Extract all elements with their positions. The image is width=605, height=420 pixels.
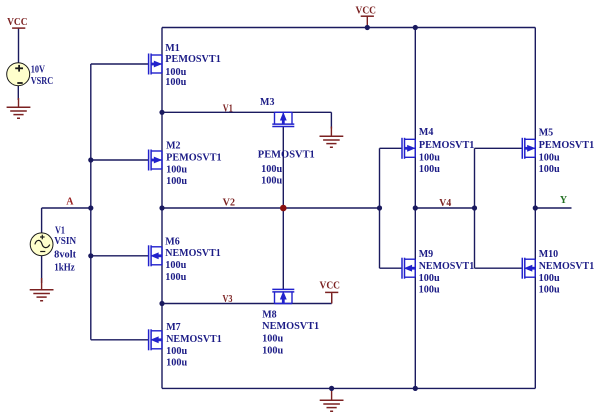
transistor M3 xyxy=(272,112,294,126)
svg-text:NEMOSVT1: NEMOSVT1 xyxy=(262,321,319,332)
svg-text:VSRC: VSRC xyxy=(31,76,54,87)
wire left column drain-source bus xyxy=(161,28,163,389)
power symbol VCC xyxy=(320,280,341,303)
transistor M10 xyxy=(522,258,535,279)
svg-text:100u: 100u xyxy=(419,284,440,295)
transistor M6 xyxy=(149,245,162,266)
svg-text:VCC: VCC xyxy=(7,17,28,28)
junction xyxy=(88,205,93,210)
wire VSIN bottom lead xyxy=(41,256,43,284)
label M1 value block xyxy=(165,43,221,88)
svg-text:100u: 100u xyxy=(165,77,186,88)
wire VSRC top lead xyxy=(18,28,20,63)
wire right column drain-source bus xyxy=(534,28,536,389)
svg-text:PEMOSVT1: PEMOSVT1 xyxy=(166,152,222,163)
power symbol VCC xyxy=(7,17,28,28)
wire V1 to ground drop xyxy=(330,112,332,128)
wire VSRC bottom lead xyxy=(17,86,19,100)
label V1 VSIN 8volt 1kHz xyxy=(54,225,77,273)
ground xyxy=(30,278,54,301)
wire M1 gate lead xyxy=(91,63,149,65)
svg-text:V2: V2 xyxy=(223,197,235,208)
svg-text:100u: 100u xyxy=(165,272,186,283)
ground xyxy=(320,127,344,148)
ground xyxy=(320,388,344,411)
wire M2 gate lead xyxy=(91,159,149,161)
svg-text:100u: 100u xyxy=(262,334,283,345)
svg-text:PEMOSVT1: PEMOSVT1 xyxy=(419,140,475,151)
svg-text:A: A xyxy=(66,196,74,207)
svg-text:100u: 100u xyxy=(261,164,282,175)
junction xyxy=(159,301,164,306)
wire left gate bus xyxy=(90,64,92,340)
power symbol VCC xyxy=(356,6,377,28)
junction xyxy=(159,110,164,115)
svg-text:M6: M6 xyxy=(165,236,179,247)
svg-text:VCC: VCC xyxy=(320,280,341,291)
svg-text:1kHz: 1kHz xyxy=(54,262,75,273)
svg-text:PEMOSVT1: PEMOSVT1 xyxy=(539,140,595,151)
svg-text:NEMOSVT1: NEMOSVT1 xyxy=(539,261,595,272)
svg-text:M3: M3 xyxy=(260,97,274,108)
junction xyxy=(377,205,382,210)
svg-text:PEMOSVT1: PEMOSVT1 xyxy=(258,150,315,161)
wire node A horizontal xyxy=(42,207,91,209)
svg-text:PEMOSVT1: PEMOSVT1 xyxy=(165,54,221,65)
svg-text:100u: 100u xyxy=(419,273,440,284)
transistor M9 xyxy=(402,258,415,279)
label VSRC 10V xyxy=(31,65,54,87)
svg-text:M8: M8 xyxy=(262,309,276,320)
svg-text:VCC: VCC xyxy=(356,6,377,17)
transistor M5 xyxy=(522,138,535,159)
wire M10 gate lead xyxy=(475,267,523,269)
voltage source V-VSRC 10V xyxy=(7,63,30,86)
wire node V4 horizontal xyxy=(415,207,474,209)
svg-text:M2: M2 xyxy=(166,140,180,151)
svg-text:M5: M5 xyxy=(539,127,553,138)
junction xyxy=(533,205,538,210)
wire M9 gate lead xyxy=(380,267,403,269)
transistor M4 xyxy=(402,138,415,159)
label M2 value block xyxy=(166,140,222,187)
svg-text:M7: M7 xyxy=(166,322,180,333)
wire M5 gate lead xyxy=(475,147,523,149)
svg-text:NEMOSVT1: NEMOSVT1 xyxy=(166,334,222,345)
junction xyxy=(88,253,93,258)
label M5 value block xyxy=(539,127,595,175)
label M7 value block xyxy=(166,322,222,369)
svg-text:100u: 100u xyxy=(539,153,560,164)
label M6 value block xyxy=(165,236,221,283)
wire M4 gate lead xyxy=(380,147,403,149)
wire M7 gate lead xyxy=(91,339,149,341)
wire node V3 horizontal xyxy=(162,303,332,305)
label M9 value block xyxy=(419,249,475,295)
svg-text:100u: 100u xyxy=(262,345,283,356)
wire M4-M9 gate vertical xyxy=(379,148,381,268)
junction xyxy=(472,205,477,210)
transistor M1 xyxy=(149,54,162,75)
svg-text:8volt: 8volt xyxy=(54,249,77,260)
svg-text:Y: Y xyxy=(560,195,568,206)
junction xyxy=(329,386,334,391)
svg-text:10V: 10V xyxy=(31,65,46,76)
wire V3 VCC riser xyxy=(331,294,333,304)
label M8 value block xyxy=(262,309,319,356)
junction xyxy=(365,25,370,30)
svg-text:M10: M10 xyxy=(539,249,558,260)
transistor M7 xyxy=(149,329,162,350)
svg-text:NEMOSVT1: NEMOSVT1 xyxy=(165,248,221,259)
wire M6 gate lead xyxy=(91,255,149,257)
ground xyxy=(7,98,31,118)
junction xyxy=(413,25,418,30)
wire M5-M10 gate vertical xyxy=(474,148,476,268)
wire VCC top rail xyxy=(162,27,535,29)
svg-text:100u: 100u xyxy=(165,260,186,271)
svg-text:V1: V1 xyxy=(223,103,233,114)
svg-text:100u: 100u xyxy=(166,176,187,187)
junction xyxy=(159,205,164,210)
svg-text:V1: V1 xyxy=(55,225,65,236)
svg-text:M1: M1 xyxy=(165,43,179,54)
svg-text:100u: 100u xyxy=(166,357,187,368)
wire node V2 horizontal xyxy=(162,207,380,209)
svg-text:100u: 100u xyxy=(419,152,440,163)
svg-text:M9: M9 xyxy=(419,249,433,260)
junction xyxy=(88,157,93,162)
label M4 value block xyxy=(419,127,475,175)
junction xyxy=(413,386,418,391)
transistor M2 xyxy=(149,150,162,171)
node V2 red junction dot xyxy=(280,205,287,212)
wire node V1 horizontal xyxy=(162,111,331,113)
junction xyxy=(413,205,418,210)
svg-text:100u: 100u xyxy=(539,284,560,295)
svg-text:100u: 100u xyxy=(419,164,440,175)
wire bottom ground rail xyxy=(162,387,535,389)
wire M3-M8 gate vertical xyxy=(282,127,284,289)
transistor M8 xyxy=(272,289,294,303)
svg-text:100u: 100u xyxy=(166,164,187,175)
svg-text:VSIN: VSIN xyxy=(54,236,77,247)
svg-text:100u: 100u xyxy=(539,273,560,284)
svg-text:V4: V4 xyxy=(439,198,451,209)
wire VSIN top lead xyxy=(41,208,43,233)
svg-text:M4: M4 xyxy=(419,127,433,138)
svg-text:100u: 100u xyxy=(539,164,560,175)
label M10 value block xyxy=(539,249,595,295)
wire middle column drain-source bus xyxy=(414,28,416,389)
svg-text:V3: V3 xyxy=(223,294,233,305)
voltage source V1 VSIN xyxy=(30,233,53,256)
wire output Y stub xyxy=(535,207,571,209)
label M3 value block xyxy=(258,97,315,187)
svg-text:NEMOSVT1: NEMOSVT1 xyxy=(419,261,475,272)
svg-text:100u: 100u xyxy=(261,176,282,187)
svg-text:100u: 100u xyxy=(166,346,187,357)
